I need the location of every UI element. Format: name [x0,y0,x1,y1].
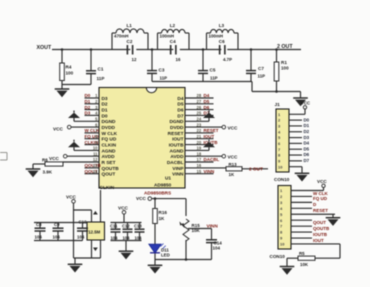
resistor R13 [226,162,242,177]
wire [185,149,209,151]
svg-text:11P: 11P [97,76,105,81]
wire [291,213,335,215]
wire [85,103,100,105]
wire [242,168,268,170]
svg-text:CON10: CON10 [270,254,286,259]
svg-text:D0: D0 [85,93,91,98]
svg-text:IOUT: IOUT [172,137,183,143]
wire [0,153,7,161]
wire [185,109,214,111]
svg-text:RESET: RESET [313,208,328,213]
svg-text:19: 19 [197,146,202,151]
svg-text:FQ UD: FQ UD [313,196,328,201]
wire [74,240,101,264]
svg-text:L2: L2 [170,23,176,28]
power VCC [222,125,238,130]
power VCC [53,125,71,131]
svg-text:R16: R16 [159,210,168,215]
svg-text:104: 104 [213,246,221,251]
wire [185,114,214,116]
svg-text:26: 26 [197,105,202,110]
svg-text:VCC: VCC [118,205,129,210]
svg-text:104: 104 [35,234,43,239]
svg-text:FQ UD: FQ UD [102,137,117,143]
svg-text:D3: D3 [85,111,91,116]
svg-text:R1: R1 [281,60,287,65]
wire [185,167,226,169]
svg-text:DGND: DGND [170,119,185,125]
svg-text:24: 24 [197,117,202,122]
wire [332,214,334,217]
ground [55,89,70,97]
svg-text:C9: C9 [54,222,60,227]
wire [185,97,214,99]
capacitor C13 [134,223,145,241]
svg-text:VCC: VCC [317,179,327,184]
svg-text:LED: LED [161,253,170,258]
wire [111,240,142,242]
svg-text:D2: D2 [304,129,310,134]
connector J1 [275,102,290,172]
capacitor C14 [206,229,222,260]
wire [74,149,99,151]
inductor L1 [112,23,148,49]
junction [250,48,253,51]
svg-text:C10: C10 [79,220,88,225]
svg-text:D4: D4 [304,141,310,146]
ground AGND [203,140,215,148]
wire [155,254,212,265]
junction [90,48,93,51]
svg-text:VCC: VCC [301,100,311,105]
wire [154,224,156,245]
capacitor C6 [219,39,232,62]
svg-text:IOUT: IOUT [204,134,215,139]
capacitor C3 [147,50,167,82]
wire [61,85,63,89]
potentiometer R15 10K [180,219,201,241]
svg-text:AD9850: AD9850 [154,182,172,187]
wire [289,142,302,144]
junction [185,258,188,261]
junction [151,48,154,51]
svg-text:DACBL: DACBL [204,157,220,162]
connector J2 [278,186,291,250]
svg-text:VCC: VCC [228,125,239,130]
svg-text:VCC: VCC [53,127,64,132]
svg-text:D0: D0 [102,113,108,119]
svg-text:11P: 11P [258,73,266,78]
svg-text:DGND: DGND [102,119,117,125]
svg-text:L3: L3 [219,23,225,28]
svg-text:W CLK: W CLK [85,128,100,133]
svg-text:R13: R13 [229,162,238,167]
svg-text:104: 104 [111,236,119,241]
svg-text:XOUT: XOUT [37,45,52,51]
wire [85,114,100,116]
svg-text:D6: D6 [177,108,183,114]
svg-text:RESET: RESET [204,128,219,133]
svg-text:12: 12 [93,157,98,162]
ground [293,98,308,106]
wire [188,228,212,230]
ground DGND [203,111,215,119]
junction [202,48,205,51]
wire [185,103,214,105]
svg-text:16: 16 [197,163,202,168]
svg-text:100mH: 100mH [160,34,174,39]
svg-text:VINN: VINN [207,224,219,229]
wire [185,173,214,175]
wire [289,137,302,139]
resistor R5 [298,251,315,267]
wire [52,49,301,51]
svg-text:3.9K: 3.9K [43,170,53,175]
svg-text:DVDD: DVDD [102,125,116,131]
junction [61,48,64,51]
power VCC [301,100,311,109]
svg-text:D6: D6 [304,152,310,157]
oscillator X1 12.5M [87,211,105,251]
wire [185,120,209,122]
wire [291,237,312,239]
svg-text:C6: C6 [219,39,225,44]
svg-text:10: 10 [93,146,98,151]
svg-text:25: 25 [197,111,202,116]
resistor R4 [60,50,74,85]
wire [289,109,305,114]
svg-text:C2: C2 [127,39,133,44]
wire [154,199,156,209]
svg-text:QOUT: QOUT [313,220,326,225]
svg-text:D5: D5 [177,102,183,108]
svg-text:D3: D3 [304,135,310,140]
svg-text:VINN: VINN [204,169,215,174]
LED D11 [149,244,170,258]
wire [67,155,99,157]
svg-text:470mH: 470mH [114,34,128,39]
svg-text:23: 23 [197,122,202,127]
capacitor C11 [110,223,121,241]
ground [119,251,134,259]
capacitor C10 [77,220,88,241]
svg-text:D2: D2 [85,105,91,110]
wire [289,160,302,162]
wire [208,147,210,150]
svg-text:VINP: VINP [172,166,183,172]
ground [68,264,83,272]
svg-text:CLKIN: CLKIN [102,143,117,149]
svg-text:20: 20 [197,140,202,145]
svg-text:11P: 11P [160,76,168,81]
resistor R6 [42,158,63,175]
wire [208,118,210,121]
svg-text:AVDD: AVDD [170,154,184,160]
svg-text:D7: D7 [177,113,183,119]
svg-text:1K: 1K [159,216,166,221]
svg-text:VCC: VCC [228,154,239,159]
wire [185,138,214,140]
svg-text:2 OUT: 2 OUT [277,44,293,50]
capacitor C9 [53,222,64,240]
wire [33,164,45,169]
svg-text:AVDD: AVDD [102,154,116,160]
svg-text:AGND: AGND [102,148,117,154]
svg-text:QOUTB: QOUTB [102,166,120,172]
ground [326,218,341,226]
wire [85,173,100,175]
resistor R1 [274,50,289,92]
svg-text:2 OUT: 2 OUT [249,166,263,171]
junction [275,90,278,93]
wire [111,222,142,224]
svg-text:C12: C12 [122,223,130,228]
svg-text:D2: D2 [102,102,108,108]
wire [291,201,312,203]
svg-text:R SET: R SET [102,160,116,166]
capacitor C2 [127,39,137,62]
svg-text:21: 21 [197,134,202,139]
ground [280,267,295,275]
svg-text:VCC: VCC [66,194,77,199]
svg-text:1K: 1K [229,172,235,177]
wire [185,132,214,134]
op-amp U1 AD9850 body [99,88,185,189]
svg-text:D4: D4 [177,96,183,102]
svg-text:CLKIN: CLKIN [100,185,115,191]
wire [85,144,100,146]
wire [74,120,99,122]
wire [152,199,186,216]
power VCC [317,179,327,190]
svg-text:12: 12 [132,57,137,62]
wire [185,126,222,128]
wire [34,240,83,242]
wire [185,161,214,163]
wire [289,125,302,127]
svg-text:12.5M: 12.5M [88,230,100,235]
svg-text:4.7P: 4.7P [223,57,232,62]
svg-text:W CLK: W CLK [313,191,328,196]
wire [100,190,102,222]
wire [85,132,100,134]
svg-text:AD9850BRS: AD9850BRS [144,191,171,196]
svg-text:100: 100 [281,66,289,71]
svg-text:28: 28 [197,93,202,98]
svg-text:D1: D1 [304,123,310,128]
capacitor C12 [122,223,133,241]
IC pin name labels [102,96,185,178]
power VCC [118,205,129,222]
ground DGND [68,111,80,119]
wire [291,195,312,197]
svg-text:D0: D0 [304,117,310,122]
power VCC [66,194,77,203]
power VCC [222,154,238,159]
wire [289,131,302,133]
svg-text:RESET: RESET [168,131,184,137]
svg-text:C8: C8 [36,222,42,227]
resistor R16 [153,209,168,224]
svg-text:U1: U1 [165,176,171,181]
wire [185,144,214,146]
svg-text:D7: D7 [304,158,310,163]
wire [289,154,302,156]
svg-text:CON10: CON10 [274,177,290,182]
inductor L3 [207,23,239,49]
svg-text:104: 104 [77,234,85,239]
svg-text:11P: 11P [210,76,218,81]
svg-text:VINN: VINN [172,172,184,178]
svg-text:15: 15 [197,169,202,174]
svg-text:104: 104 [53,234,61,239]
wire [125,241,127,251]
wire [152,82,301,98]
svg-text:J1: J1 [275,102,281,108]
svg-text:10: 10 [278,164,283,169]
wire [73,118,75,121]
wire [289,119,302,121]
svg-text:C11: C11 [110,223,118,228]
svg-text:C7: C7 [258,66,264,71]
wire [185,240,187,260]
svg-text:D3: D3 [102,96,108,102]
svg-text:QOUT: QOUT [102,172,116,178]
power VCC [49,154,67,160]
svg-text:104: 104 [135,236,143,241]
power VCC [136,196,152,201]
svg-text:13: 13 [93,163,98,168]
wire [85,167,100,169]
wire [289,167,302,173]
svg-text:VCC: VCC [49,156,60,161]
ground AGND [68,140,80,148]
svg-text:L1: L1 [127,23,133,28]
wire [289,148,302,150]
wire [63,161,99,163]
svg-text:22: 22 [197,128,202,133]
wire [71,126,99,128]
capacitor C5 [198,50,218,82]
svg-text:D1: D1 [85,99,91,104]
wire [287,258,298,266]
svg-text:104: 104 [123,236,131,241]
wire [62,84,91,86]
svg-text:100: 100 [66,71,74,76]
svg-text:AGND: AGND [170,148,185,154]
svg-text:16: 16 [176,57,181,62]
wire [291,190,324,192]
wire [34,222,87,224]
wire [73,147,75,150]
capacitor C1 [86,50,104,85]
wire [185,155,222,157]
svg-text:D5: D5 [204,99,210,104]
ground [148,265,163,273]
svg-text:R6: R6 [42,158,48,163]
junction [154,197,157,200]
svg-text:10K: 10K [300,262,309,267]
svg-text:D4: D4 [204,93,210,98]
wire [74,203,92,258]
svg-text:DVDD: DVDD [170,125,184,131]
wire [291,244,340,258]
svg-text:QOUTB: QOUTB [313,226,330,231]
wire [291,225,312,227]
wire [85,138,100,140]
svg-text:C5: C5 [210,68,216,73]
svg-text:100mH: 100mH [209,34,223,39]
svg-text:D1: D1 [102,108,108,114]
svg-text:W CLK: W CLK [102,131,118,137]
wire [291,207,312,209]
svg-text:IOUT: IOUT [313,238,324,243]
svg-text:18: 18 [197,151,202,156]
svg-text:17: 17 [197,157,202,162]
svg-text:C3: C3 [159,68,165,73]
svg-text:C4: C4 [170,39,176,44]
ground [26,169,41,177]
svg-text:14: 14 [93,169,98,174]
svg-text:IOUTB: IOUTB [313,232,328,237]
svg-text:VCC: VCC [136,196,147,201]
svg-text:D5: D5 [304,146,310,151]
wire [291,219,312,221]
ground [295,173,310,181]
svg-text:DACBL: DACBL [167,160,184,166]
capacitor C8 [35,222,46,240]
svg-text:IOUTB: IOUTB [169,143,184,149]
svg-text:R4: R4 [66,65,72,70]
svg-text:R5: R5 [299,251,305,256]
capacitor C4 [170,39,181,62]
wire [85,97,100,99]
wire [85,109,100,111]
capacitor C7 [246,50,265,82]
svg-text:10: 10 [280,242,285,247]
svg-text:D6: D6 [204,105,210,110]
svg-text:11: 11 [93,151,98,156]
inductor L2 [158,23,190,49]
svg-text:27: 27 [197,99,202,104]
wire [291,231,312,233]
svg-text:C1: C1 [98,67,104,72]
svg-text:C13: C13 [134,223,142,228]
junction [275,48,278,51]
